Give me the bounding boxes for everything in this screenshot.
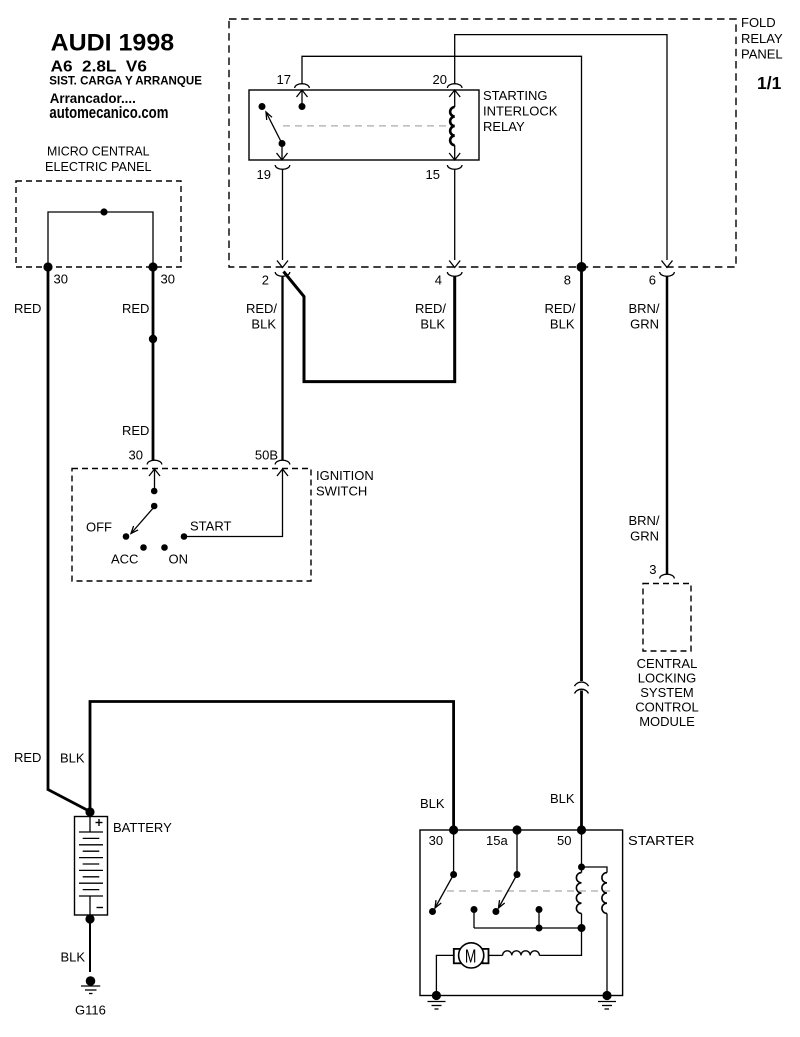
svg-text:CENTRAL: CENTRAL (637, 656, 698, 671)
svg-text:3: 3 (649, 562, 656, 577)
svg-text:15: 15 (426, 167, 440, 182)
contact dot START (181, 533, 188, 540)
relay lever (266, 112, 282, 144)
wire motor left to ground (436, 955, 453, 995)
svg-text:RED: RED (14, 750, 41, 765)
ignition dot upper (151, 488, 158, 495)
svg-text:MICRO CENTRAL: MICRO CENTRAL (47, 144, 150, 159)
connector cap 17 (295, 84, 310, 88)
solenoid coil 2 (582, 867, 608, 996)
label STARTING INTERLOCK RELAY (483, 88, 558, 134)
svg-text:FOLD: FOLD (741, 15, 776, 30)
svg-text:RED/: RED/ (246, 301, 277, 316)
svg-text:BLK: BLK (61, 950, 86, 965)
svg-text:30: 30 (54, 272, 68, 287)
arrow down at 15 (coil bottom) (449, 153, 460, 160)
wire inside micro panel (48, 212, 153, 267)
wire pin20 up and over to pin 6 (455, 35, 667, 260)
svg-text:START: START (190, 519, 231, 534)
svg-text:GRN: GRN (630, 529, 659, 544)
label MICRO CENTRAL ELECTRIC PANEL (45, 144, 152, 174)
svg-text:17: 17 (277, 72, 291, 87)
starter terminal dot 30 (449, 825, 458, 834)
wire RED left diagonal to battery (47, 789, 89, 811)
svg-text:SWITCH: SWITCH (316, 484, 367, 499)
connector cap 20 (447, 84, 462, 88)
contact dot ACC (140, 544, 147, 551)
wire pin2 to ignition 50B thin (281, 276, 283, 460)
wire pin19 down to pin 2 (282, 170, 284, 261)
arrow up at 17 (297, 90, 308, 97)
break symbol on pin8 wire (575, 682, 589, 693)
wire BLK battery to starter 30 (90, 702, 454, 831)
junction dot on RED right wire (149, 335, 157, 343)
label BRN/GRN upper (628, 301, 659, 332)
svg-text:RED: RED (14, 301, 41, 316)
wire pin6 down to module pin3 (666, 276, 669, 574)
svg-text:M: M (465, 947, 477, 967)
svg-text:ON: ON (169, 552, 189, 567)
svg-text:BLK: BLK (550, 791, 575, 806)
terminal 30 left dot (43, 262, 52, 271)
svg-text:SYSTEM: SYSTEM (640, 685, 693, 700)
wire pin15 down to pin 4 (454, 170, 456, 261)
battery minus dot (85, 914, 94, 923)
battery plus dot (85, 807, 94, 816)
wire BLK battery to ground (89, 919, 91, 972)
connector cap 50B ignition (275, 460, 290, 464)
ignition switch dashed box (72, 469, 311, 582)
wire RED right vertical (152, 267, 155, 460)
svg-text:ELECTRIC PANEL: ELECTRIC PANEL (45, 159, 152, 174)
svg-text:CONTROL: CONTROL (635, 700, 699, 715)
micro central electric panel dashed box (16, 181, 181, 267)
svg-text:G116: G116 (75, 1003, 106, 1018)
svg-text:20: 20 (433, 72, 447, 87)
starter contact dots and links (471, 906, 586, 932)
svg-text:BLK: BLK (60, 751, 85, 766)
label BRN/GRN lower (628, 513, 659, 544)
svg-text:PANEL: PANEL (741, 47, 783, 62)
svg-text:30: 30 (129, 448, 143, 463)
ground G116 symbol (81, 976, 100, 993)
gray dashed line in starter (447, 890, 610, 892)
svg-text:1/1: 1/1 (757, 73, 782, 93)
starting interlock relay box (249, 90, 479, 160)
arrow up at ignition 50B (277, 469, 288, 476)
svg-text:50B: 50B (255, 448, 278, 463)
svg-text:30: 30 (429, 833, 443, 848)
svg-text:RELAY: RELAY (483, 119, 525, 134)
battery internal stub top (89, 817, 91, 833)
svg-text:RED: RED (122, 301, 149, 316)
svg-text:4: 4 (435, 273, 442, 288)
wire START to 50B (184, 470, 283, 537)
svg-text:BATTERY: BATTERY (113, 820, 172, 835)
svg-text:30: 30 (161, 272, 175, 287)
svg-text:RED: RED (122, 423, 149, 438)
svg-text:BLK: BLK (251, 317, 276, 332)
svg-text:SIST. CARGA Y ARRANQUE: SIST. CARGA Y ARRANQUE (49, 74, 202, 87)
starter box (420, 830, 623, 996)
label RED/BLK at pin8 (544, 301, 575, 332)
svg-text:INTERLOCK: INTERLOCK (483, 104, 558, 119)
wire pin8 down to starter 50 (580, 267, 583, 830)
svg-text:BRN/: BRN/ (628, 513, 659, 528)
wire RED left vertical (47, 267, 50, 790)
relay switch fixed dot (259, 103, 266, 110)
battery internal stub bottom (89, 896, 91, 915)
solenoid junction dot (578, 864, 585, 871)
contact dot ON (161, 544, 168, 551)
svg-text:RELAY: RELAY (741, 31, 783, 46)
battery plates (79, 832, 103, 896)
svg-text:MODULE: MODULE (639, 714, 695, 729)
ignition internal wire from 30 (154, 469, 156, 492)
fold relay panel dashed box (229, 19, 736, 267)
arrow up at 20 (coil top) (449, 90, 460, 97)
starter switch 30 (429, 830, 457, 915)
starter terminal dot 50 (577, 825, 586, 834)
svg-text:19: 19 (257, 167, 271, 182)
ignition dot lower (151, 503, 158, 510)
arrow up at ignition 30 (149, 469, 160, 476)
svg-text:STARTING: STARTING (483, 88, 548, 103)
svg-text:BLK: BLK (420, 317, 445, 332)
relay lever arrowhead (266, 112, 272, 120)
svg-text:RED/: RED/ (544, 301, 575, 316)
svg-text:RED/: RED/ (415, 301, 446, 316)
starter ground left (428, 991, 446, 1009)
ignition lever arrowhead (131, 526, 138, 534)
svg-text:LOCKING: LOCKING (638, 671, 697, 686)
battery box (75, 817, 108, 916)
starter ground right (598, 991, 616, 1009)
svg-text:IGNITION: IGNITION (316, 468, 374, 483)
contact dot OFF (123, 533, 130, 540)
terminal 30 right dot (148, 262, 157, 271)
battery plus sign (96, 819, 103, 826)
junction dot on micro panel wire (100, 208, 107, 215)
solenoid coil 1 (576, 830, 581, 928)
central locking module dashed box (643, 584, 691, 652)
connector cap 3 (660, 574, 675, 578)
svg-text:automecanico.com: automecanico.com (49, 104, 168, 122)
svg-text:ACC: ACC (111, 552, 138, 567)
stub and dot pin 17 (301, 90, 303, 107)
svg-text:BLK: BLK (550, 317, 575, 332)
ignition lever (131, 507, 155, 534)
label RED/BLK at pin2 (246, 301, 277, 332)
battery minus sign (97, 907, 104, 909)
svg-text:STARTER: STARTER (628, 833, 695, 848)
label CENTRAL LOCKING SYSTEM CONTROL MODULE (635, 656, 699, 729)
connector 4 at panel bottom (447, 261, 462, 277)
svg-text:A6 2.8L V6: A6 2.8L V6 (51, 58, 147, 75)
svg-text:BRN/: BRN/ (628, 301, 659, 316)
connector cup 19 (275, 165, 290, 169)
svg-text:OFF: OFF (86, 520, 112, 535)
gray dashed line in relay (283, 125, 449, 127)
svg-text:AUDI 1998: AUDI 1998 (51, 30, 174, 57)
connector cup 15 (447, 165, 462, 169)
label IGNITION SWITCH (316, 468, 374, 499)
junction dot pin 8 (577, 262, 587, 272)
svg-text:6: 6 (649, 273, 656, 288)
connector 2 at panel bottom (275, 261, 290, 277)
wire pin17 up and over to pin 8 (302, 56, 582, 267)
relay switch lower dot (279, 140, 286, 147)
svg-text:GRN: GRN (630, 317, 659, 332)
connector cap 30 ignition (147, 460, 162, 464)
connector 6 at panel bottom (660, 261, 675, 277)
armature coil (489, 928, 582, 955)
thick wire pin2 to pin4 bridge (284, 272, 455, 382)
svg-text:8: 8 (564, 273, 571, 288)
svg-text:BLK: BLK (420, 796, 445, 811)
stub pin 19 with arrow down (281, 144, 283, 161)
svg-text:2: 2 (262, 273, 269, 288)
label RED/BLK at pin4 (415, 301, 446, 332)
svg-text:15a: 15a (486, 833, 508, 848)
relay coil (450, 90, 455, 160)
svg-text:50: 50 (557, 833, 571, 848)
label FOLD RELAY PANEL (741, 15, 783, 62)
starter terminal dot 15a (512, 825, 521, 834)
motor M (454, 943, 489, 968)
starter switch 15a (492, 830, 520, 915)
